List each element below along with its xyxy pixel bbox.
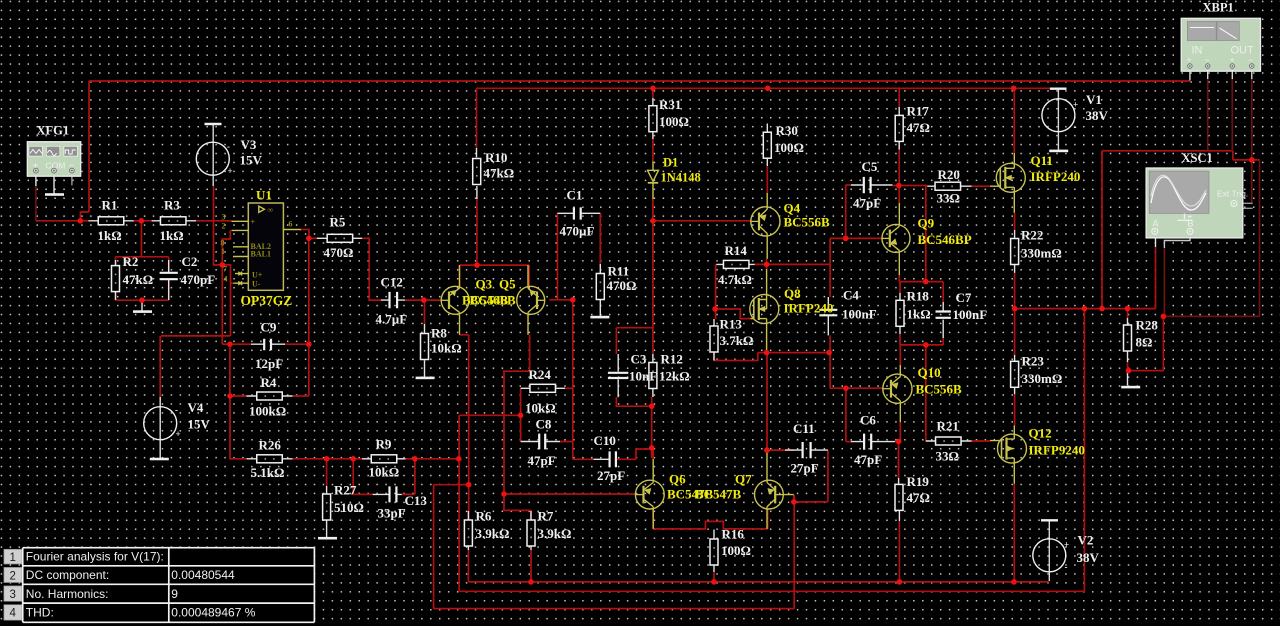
wire Q10 collector/emitter yellow stubs xyxy=(899,365,901,422)
svg-text:27pF: 27pF xyxy=(597,468,625,483)
svg-text:R11: R11 xyxy=(608,264,630,279)
wire R5 leads xyxy=(317,237,363,239)
wire V4 stem to ground xyxy=(159,397,161,458)
resistor R10 xyxy=(473,159,481,185)
bode plotter XBP1 xyxy=(1181,1,1260,72)
wire XBP1 OUT+ pin xyxy=(1231,79,1233,151)
node R2/C2 ground xyxy=(139,297,145,303)
transistor Q7 xyxy=(755,480,784,509)
node Q9 emitter rail xyxy=(923,279,929,285)
wire R4 leads xyxy=(247,395,293,397)
wire C2 leads xyxy=(168,260,170,300)
wire XFG1 minus stub xyxy=(71,173,73,186)
wire R24 leads xyxy=(521,387,566,389)
capacitor C11 xyxy=(803,442,811,458)
svg-text:R13: R13 xyxy=(720,317,743,332)
svg-text:-: - xyxy=(1065,562,1068,572)
svg-text:Q11: Q11 xyxy=(1031,153,1053,168)
resistor R21 xyxy=(936,437,962,445)
wire Q12 drain/source yellow stubs xyxy=(1013,426,1015,484)
wire C5 leads xyxy=(851,184,892,186)
svg-text:R31: R31 xyxy=(659,97,681,112)
source V4 xyxy=(144,405,181,440)
svg-text:1kΩ: 1kΩ xyxy=(160,228,184,243)
svg-text:R8: R8 xyxy=(431,326,447,341)
node input/R1 xyxy=(78,218,84,224)
wire C13 leads xyxy=(373,493,402,495)
ground R2/C2 xyxy=(133,300,152,313)
svg-text:-: - xyxy=(175,405,178,415)
wire R11 leads and ground stem xyxy=(599,264,601,316)
wire C12 leads xyxy=(381,299,405,301)
node R4 left xyxy=(227,393,233,399)
svg-text:47pF: 47pF xyxy=(528,453,556,468)
wire R16 leads xyxy=(713,530,715,573)
wire XSC1 A probe to output rail xyxy=(1155,247,1157,309)
svg-text:XSC1: XSC1 xyxy=(1182,151,1213,165)
svg-text:-: - xyxy=(227,142,230,152)
wire R23 top xyxy=(1014,309,1016,355)
capacitor C13 xyxy=(390,486,397,502)
wire top rail 1 (input to XBP1 IN+) xyxy=(81,81,1191,221)
node Q12 source rail xyxy=(1011,579,1017,585)
svg-text:+: + xyxy=(251,218,256,227)
ground V1 xyxy=(1049,150,1068,153)
svg-text:Q4: Q4 xyxy=(784,201,801,216)
svg-text:100Ω: 100Ω xyxy=(774,140,804,155)
resistor R5 xyxy=(327,234,353,242)
capacitor C10 xyxy=(610,451,616,467)
wire R26 leads xyxy=(247,458,293,460)
wire R10 top to rail2 xyxy=(476,88,478,148)
svg-text:R19: R19 xyxy=(907,474,930,489)
node rail2/R30 xyxy=(765,86,771,92)
svg-text:C2: C2 xyxy=(182,254,198,269)
svg-text:R27: R27 xyxy=(334,483,357,498)
wire C1 right to R11 xyxy=(599,213,601,264)
node R18/C7 bottom xyxy=(923,342,929,348)
svg-text:C6: C6 xyxy=(860,413,876,428)
svg-text:3.9kΩ: 3.9kΩ xyxy=(476,526,510,541)
wire bottom rail C xyxy=(434,495,795,609)
wire C11 leads xyxy=(785,449,828,451)
wire R4 right to feedback column xyxy=(293,238,309,396)
wire C12 to R8 and Q3 base xyxy=(405,300,442,324)
ground XFG1 COM xyxy=(45,193,64,196)
svg-text:R12: R12 xyxy=(661,352,683,367)
wire Q3 collector/emitter yellow stubs xyxy=(459,265,461,335)
svg-text:IRFP9240: IRFP9240 xyxy=(1029,443,1085,458)
resistor R16 xyxy=(710,539,718,565)
wire R10 leads xyxy=(476,148,478,199)
op-amp U1 xyxy=(232,203,302,290)
wire Q8 drain/source yellow stubs xyxy=(766,269,768,353)
capacitor C9 xyxy=(264,339,271,351)
ground V4 xyxy=(150,458,169,461)
svg-text:IRFP240: IRFP240 xyxy=(784,301,834,316)
svg-text:R16: R16 xyxy=(722,527,745,542)
wire left bottom rail C riser xyxy=(433,485,435,609)
svg-text:4.7µF: 4.7µF xyxy=(376,312,408,327)
svg-text:8Ω: 8Ω xyxy=(1136,335,1153,350)
wire output to XBP1 OUT+ xyxy=(1102,151,1260,309)
svg-text:V3: V3 xyxy=(241,137,257,152)
svg-text:C10: C10 xyxy=(594,433,616,448)
node C10/Q6 collector xyxy=(649,445,655,451)
svg-text:∞: ∞ xyxy=(268,206,274,215)
wire R21 right to Q12 gate xyxy=(972,440,990,442)
svg-text:C3: C3 xyxy=(631,352,647,367)
wire R18/C7 bottom rail xyxy=(900,334,943,365)
svg-text:C7: C7 xyxy=(956,290,972,305)
svg-text:100kΩ: 100kΩ xyxy=(249,404,286,419)
wire C3 leads xyxy=(617,354,619,397)
wire C3 top branch xyxy=(616,328,653,354)
wire C1 leads xyxy=(557,212,600,214)
wire R22 bottom to output rail xyxy=(1014,273,1016,309)
wire XBP1 OUT- pin to Ext Trig xyxy=(1251,79,1253,203)
node C13 right xyxy=(412,456,418,462)
wire R31 leads xyxy=(652,98,654,139)
wire C13 right drop xyxy=(402,459,415,495)
svg-text:4: 4 xyxy=(224,274,228,283)
svg-text:V2: V2 xyxy=(1078,533,1094,548)
source V2 xyxy=(1033,520,1069,572)
resistor R22 xyxy=(1011,239,1019,265)
wire R5 to C12 xyxy=(362,238,381,300)
svg-text:1N4148: 1N4148 xyxy=(661,171,701,185)
wire XBP1 pin stubs xyxy=(1190,68,1252,80)
wire R28 bottom node xyxy=(1128,316,1164,370)
svg-text:R21: R21 xyxy=(937,419,959,434)
wire C4 column xyxy=(829,238,831,388)
svg-text:Fourier analysis for V(17):: Fourier analysis for V(17): xyxy=(26,550,164,564)
node Q7 collector/C11 xyxy=(764,447,770,453)
svg-text:XFG1: XFG1 xyxy=(37,124,70,138)
svg-text:R30: R30 xyxy=(776,123,798,138)
node R12/C3 bottom xyxy=(649,403,655,409)
svg-text:R3: R3 xyxy=(164,198,180,213)
wire C6 left drop xyxy=(846,388,851,441)
svg-text:R23: R23 xyxy=(1022,354,1045,369)
wire R22 leads xyxy=(1014,230,1016,273)
svg-text:IRFP240: IRFP240 xyxy=(1031,169,1081,184)
resistor R7 xyxy=(527,520,535,546)
wire R21 column xyxy=(925,345,927,441)
wire C1/Q5base/R24/C8 column xyxy=(560,300,594,460)
svg-text:R17: R17 xyxy=(907,104,930,119)
node rail2/R31 xyxy=(650,86,656,92)
wire R17 leads xyxy=(898,107,900,150)
wire C7 leads xyxy=(942,302,944,338)
svg-text:4.7kΩ: 4.7kΩ xyxy=(718,272,752,287)
svg-text:7: 7 xyxy=(223,265,227,274)
svg-text:R18: R18 xyxy=(907,289,930,304)
svg-text:R2: R2 xyxy=(123,254,139,269)
wire Q9 emitter rail (R18/C7 top) xyxy=(899,275,943,302)
node Q8 source xyxy=(764,350,770,356)
svg-text:1: 1 xyxy=(10,552,16,564)
node D1/Q4 base xyxy=(650,218,656,224)
wire R6 leads xyxy=(467,511,469,550)
wire U1 pin6 output to R5 xyxy=(301,230,317,239)
wire C8 leads xyxy=(521,441,560,443)
svg-text:2: 2 xyxy=(222,222,226,231)
wire R26 right to R9 rail xyxy=(293,458,327,460)
wire B net to right edge column xyxy=(1163,248,1165,316)
svg-text:C1: C1 xyxy=(567,188,583,203)
wire VAS node to Q9 base xyxy=(830,185,882,239)
transistor Q3 xyxy=(441,286,469,314)
svg-text:47pF: 47pF xyxy=(853,196,881,211)
wire R13 leads xyxy=(713,319,715,361)
wire feedback column x459 xyxy=(458,415,460,591)
resistor R9 xyxy=(371,455,397,463)
wire Q5 emitter down to Q6 base xyxy=(504,335,635,494)
wire Q12 source to rail A xyxy=(1013,484,1015,582)
wire R14 rail to Q4/Q8 xyxy=(755,259,830,269)
node C12/R8 xyxy=(421,297,427,303)
INSTRUMENTS xyxy=(27,1,1260,238)
node R13/Q8 gate xyxy=(712,306,718,312)
svg-text:Q8: Q8 xyxy=(784,286,801,301)
node Q4/Q8/R14 xyxy=(764,262,770,268)
resistor R23 xyxy=(1011,361,1019,387)
wire R13 bottom rail to Q8 source rail xyxy=(714,353,830,361)
wire R6 bottom to rail A xyxy=(467,550,469,582)
wire Q4 collector/emitter yellow stubs xyxy=(766,193,768,259)
node Q3Q5 collector rail xyxy=(474,262,480,268)
svg-text:3.7kΩ: 3.7kΩ xyxy=(720,333,754,348)
wire R1 to R3 with tap down to R2/C2 xyxy=(134,221,152,257)
svg-text:38V: 38V xyxy=(1077,550,1100,565)
wire R14 leads xyxy=(716,263,754,265)
wire R23 bottom to Q12 drain xyxy=(1014,394,1016,425)
node C9 left xyxy=(227,341,233,347)
wire U1 pin2 feedback down xyxy=(222,230,230,344)
transistor Q9 xyxy=(882,224,910,252)
svg-text:10kΩ: 10kΩ xyxy=(369,465,400,480)
svg-text:+: + xyxy=(176,429,181,439)
svg-text:BC556B: BC556B xyxy=(784,215,831,230)
Fourier analysis results table xyxy=(23,548,315,622)
wire C9 rail xyxy=(222,343,308,345)
svg-text:C12: C12 xyxy=(381,275,403,290)
wire R2/C2 bottom rail to ground xyxy=(116,279,169,300)
svg-text:U+: U+ xyxy=(252,271,263,280)
svg-text:THD:: THD: xyxy=(26,605,54,619)
svg-text:Q12: Q12 xyxy=(1029,426,1052,441)
svg-text:Q9: Q9 xyxy=(918,216,935,231)
ground R28 xyxy=(1121,386,1140,389)
wire Q10 base rail xyxy=(830,387,882,389)
diode D1 xyxy=(648,162,659,200)
node B probe xyxy=(1161,314,1167,320)
wire R28 top xyxy=(1127,309,1129,318)
resistor R31 xyxy=(649,106,657,132)
svg-text:1: 1 xyxy=(221,247,225,256)
svg-text:BC546B: BC546B xyxy=(470,293,517,308)
svg-text:470µF: 470µF xyxy=(560,224,595,239)
svg-text:470Ω: 470Ω xyxy=(324,245,354,260)
resistor R12 xyxy=(649,363,657,389)
node R9 right xyxy=(456,456,462,462)
svg-text:BC547B: BC547B xyxy=(695,487,742,502)
wire R8 leads and ground stem xyxy=(424,324,426,377)
svg-text:10kΩ: 10kΩ xyxy=(431,341,462,356)
wire V2 stem xyxy=(1048,521,1050,582)
node output/feedback xyxy=(1082,306,1088,312)
svg-text:470Ω: 470Ω xyxy=(607,278,637,293)
svg-text:R26: R26 xyxy=(259,438,282,453)
wire R3 to U1 pin3 xyxy=(196,220,232,222)
resistor R4 xyxy=(257,392,283,400)
svg-text:Q5: Q5 xyxy=(499,277,516,292)
wire R30 bottom to Q4 collector xyxy=(766,166,768,193)
node Q7 base/C11 xyxy=(791,499,797,505)
wire bottom rail B (feedback from output) xyxy=(459,309,1084,592)
wire R3 leads xyxy=(152,220,196,222)
wire Q6/Q7 emitter rail with R16 bump xyxy=(653,509,768,529)
wire R27 leads and ground stem xyxy=(326,486,328,537)
wire R12/C3 bottom node xyxy=(616,397,651,458)
wire C9 leads xyxy=(251,343,285,345)
wire D1/R12 column from rail2 xyxy=(652,88,654,354)
svg-text:C9: C9 xyxy=(261,320,277,335)
wire R9 leads xyxy=(362,458,406,460)
wire Q10 emitter to C6/R19 node xyxy=(895,422,900,478)
wire R23 leads xyxy=(1014,355,1016,394)
svg-text:27pF: 27pF xyxy=(791,461,819,476)
wire XFG1 + output to R1 node xyxy=(35,186,37,221)
svg-text:B: B xyxy=(1188,219,1194,229)
svg-text:5.1kΩ: 5.1kΩ xyxy=(251,465,285,480)
resistor R3 xyxy=(160,217,186,225)
svg-text:3.9kΩ: 3.9kΩ xyxy=(538,526,572,541)
capacitor C4 xyxy=(819,310,837,316)
node R22/R23 output xyxy=(1012,306,1018,312)
svg-text:Ext Trig.: Ext Trig. xyxy=(1217,189,1248,199)
wire Q5 base to C1/R24 column xyxy=(549,213,572,299)
wire XFG1 COM ground stem xyxy=(53,173,55,194)
wire R2/C2 top rail xyxy=(116,257,169,273)
svg-text:47pF: 47pF xyxy=(854,452,882,467)
node C6 branch xyxy=(843,385,849,391)
wire R16 bottom to rail A xyxy=(713,572,715,582)
svg-text:OP37GZ: OP37GZ xyxy=(241,293,293,308)
node C4 bottom xyxy=(826,350,832,356)
wire C9/R4 left column xyxy=(230,344,247,459)
svg-text:C11: C11 xyxy=(793,421,815,436)
wire Q6 collector/emitter yellow stubs xyxy=(652,459,654,529)
svg-text:0.000489467 %: 0.000489467 % xyxy=(171,605,255,619)
oscilloscope XSC1 xyxy=(1146,151,1248,238)
svg-text:R1: R1 xyxy=(102,198,118,213)
svg-text:15V: 15V xyxy=(188,417,211,432)
transistor Q10 xyxy=(883,374,912,403)
node output/XBP xyxy=(1099,306,1105,312)
wire R7 leads xyxy=(530,511,532,550)
svg-text:C8: C8 xyxy=(536,417,552,432)
capacitor C8 xyxy=(539,434,545,450)
ground R11 xyxy=(590,316,609,319)
svg-text:IN: IN xyxy=(1192,45,1203,57)
svg-text:U1: U1 xyxy=(256,188,272,203)
YELLOWPARTS xyxy=(232,153,1027,529)
svg-text:47Ω: 47Ω xyxy=(907,490,930,505)
wire R18 leads xyxy=(899,293,901,334)
svg-text:R24: R24 xyxy=(529,367,552,382)
svg-text:0.00480544: 0.00480544 xyxy=(171,568,235,582)
svg-text:33pF: 33pF xyxy=(378,506,406,521)
wire C4 leads xyxy=(827,297,829,335)
svg-text:V4: V4 xyxy=(188,400,204,415)
svg-text:A: A xyxy=(1153,219,1159,229)
wire R17 column xyxy=(898,88,900,203)
node R7 bottom xyxy=(528,579,534,585)
svg-text:R20: R20 xyxy=(938,167,960,182)
svg-text:33Ω: 33Ω xyxy=(937,191,960,206)
wire R12 leads xyxy=(652,354,654,397)
capacitor C1 xyxy=(574,207,581,219)
wire R24/C8 left rail xyxy=(459,388,520,441)
capacitor C12 xyxy=(390,292,398,308)
svg-text:BC556B: BC556B xyxy=(916,382,963,397)
wire V1 stem xyxy=(1057,89,1059,150)
capacitor C3 xyxy=(608,373,628,378)
svg-text:BC546BP: BC546BP xyxy=(918,232,972,247)
svg-text:R28: R28 xyxy=(1136,318,1159,333)
node Q11 drain rail2 xyxy=(1011,86,1017,92)
transistor Q6 xyxy=(635,480,664,509)
wire Q3/Q5 collector rail xyxy=(460,265,530,287)
svg-text:+: + xyxy=(1064,540,1069,550)
svg-text:Q3: Q3 xyxy=(476,277,493,292)
svg-text:DC component:: DC component: xyxy=(26,568,109,582)
svg-text:R14: R14 xyxy=(725,243,748,258)
svg-text:100nF: 100nF xyxy=(953,307,988,322)
svg-text:38V: 38V xyxy=(1086,108,1109,123)
node R1/R3/R2C2 xyxy=(139,218,145,224)
wire XFG1 plus stub xyxy=(35,173,37,186)
svg-text:Q7: Q7 xyxy=(735,472,752,487)
svg-text:XBP1: XBP1 xyxy=(1203,1,1234,15)
svg-text:330mΩ: 330mΩ xyxy=(1022,371,1063,386)
node Q5 base/C1 xyxy=(570,297,576,303)
wire C5 left xyxy=(846,184,851,186)
wire XBP1 IN- pin xyxy=(1207,79,1209,151)
svg-text:100Ω: 100Ω xyxy=(721,543,751,558)
node R6 branch xyxy=(466,482,472,488)
wire R27 top xyxy=(326,459,328,486)
node R24/C8 left xyxy=(518,413,524,419)
TABLE xyxy=(4,548,315,623)
resistor R19 xyxy=(895,484,903,510)
svg-text:15V: 15V xyxy=(240,153,263,168)
node Q6 base xyxy=(501,491,507,497)
svg-text:R7: R7 xyxy=(538,509,554,524)
wire XSC1 A pin stub xyxy=(1155,234,1157,247)
wire R14 left to R13 and Q8 gate xyxy=(715,264,750,319)
wire Q9 collector/emitter yellow stubs xyxy=(898,203,900,275)
wire Q11 drain to rail2 xyxy=(1013,88,1015,153)
wire Q7 base down / C11 right xyxy=(767,450,828,502)
LEADS xyxy=(36,68,1253,581)
transistor Q4 xyxy=(751,207,780,236)
svg-text:4: 4 xyxy=(10,608,17,620)
wire R20 leads xyxy=(927,185,971,187)
resistor R13 xyxy=(710,326,718,352)
